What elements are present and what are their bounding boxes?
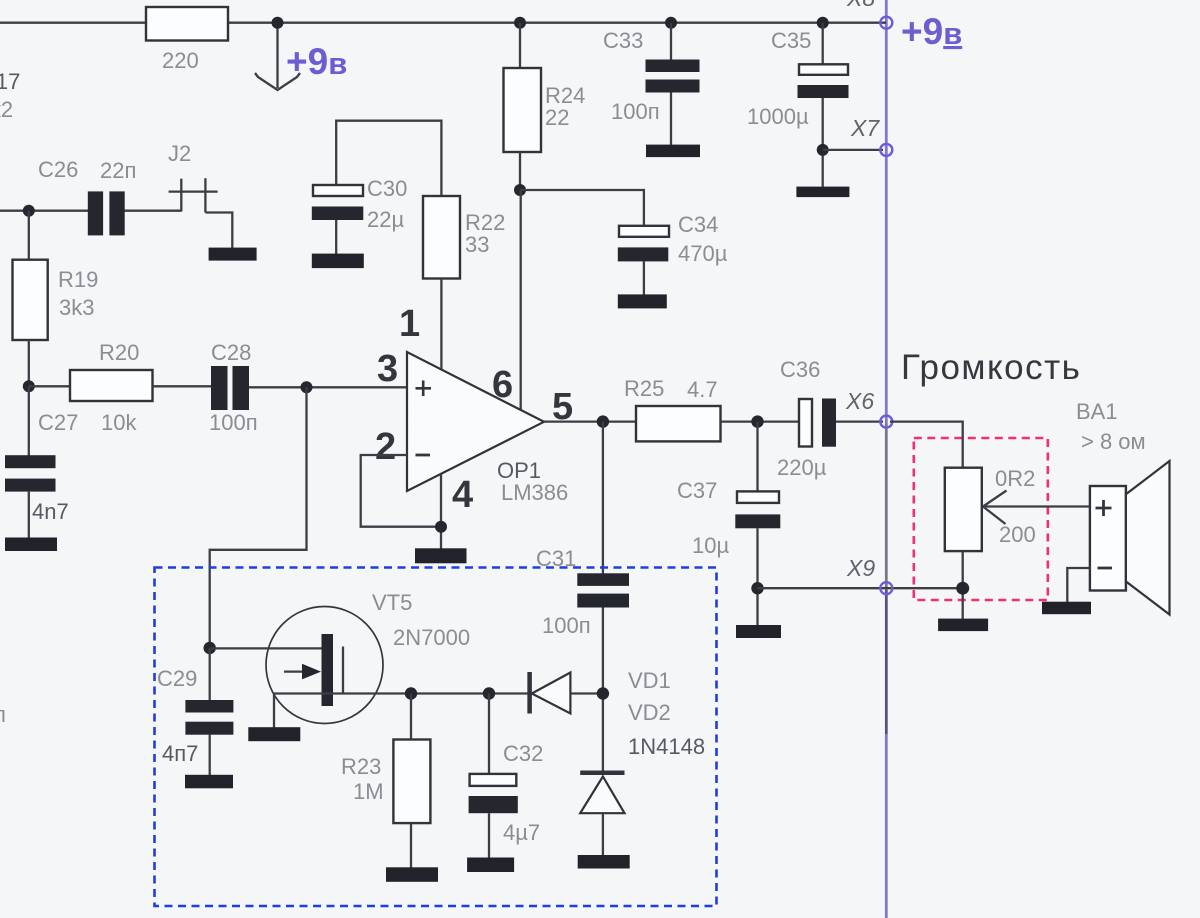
capacitor C31 (536, 422, 629, 771)
red dashed volume box (914, 438, 1048, 600)
capacitor C35 (747, 23, 849, 187)
ground under VT5 source (248, 727, 300, 741)
transistor VT5 labels (372, 590, 470, 650)
svg-text:1: 1 (399, 303, 420, 345)
ground under C35 (796, 187, 849, 198)
terminal X9 (846, 555, 892, 594)
svg-text:VD1: VD1 (628, 668, 671, 693)
svg-text:C31: C31 (536, 546, 576, 571)
node: pot bottom junction (956, 582, 969, 595)
wire pin2 to pin4 node (361, 455, 441, 527)
ground under C29 (185, 775, 233, 789)
svg-text:100п: 100п (611, 99, 660, 124)
svg-text:1N4148: 1N4148 (628, 734, 705, 759)
svg-text:470µ: 470µ (678, 241, 728, 266)
node: pin2/pin4 junction (435, 521, 447, 533)
svg-text:VT5: VT5 (372, 590, 412, 615)
wire potentiometer bottom (962, 551, 964, 619)
speaker labels BA1 >8 om (1076, 399, 1146, 454)
resistor R20 (29, 340, 211, 435)
svg-text:C30: C30 (367, 176, 407, 201)
capacitor C32 (469, 694, 544, 858)
wire pin3 branch down to gate network (210, 387, 307, 648)
svg-text:3k3: 3k3 (59, 295, 94, 320)
svg-text:X8: X8 (846, 0, 875, 11)
potentiometer labels 0R2 200 (995, 466, 1036, 547)
svg-text:22µ: 22µ (367, 207, 404, 232)
svg-text:2: 2 (375, 426, 396, 468)
blue dashed agc block box (155, 568, 717, 907)
resistor R25 (624, 376, 799, 441)
node: C35 top junction (817, 17, 829, 29)
svg-text:22: 22 (545, 105, 569, 130)
svg-text:X7: X7 (850, 115, 880, 141)
svg-text:VD2: VD2 (628, 700, 671, 725)
svg-text:п: п (0, 702, 6, 727)
potentiometer wiper arrow (983, 491, 1090, 525)
svg-text:LM386: LM386 (501, 480, 568, 505)
svg-text:R17: R17 (0, 69, 20, 94)
terminal X7 (850, 115, 892, 156)
wire C30 to R22 top link (336, 121, 441, 196)
transistor VT5 arrow (284, 664, 321, 680)
svg-text:C34: C34 (678, 212, 718, 237)
svg-text:10k: 10k (101, 410, 137, 435)
svg-text:1M: 1M (353, 779, 384, 804)
wire bottom row to X9 and potentiometer (758, 587, 963, 589)
capacitor C28 (209, 340, 407, 435)
speaker horn (1126, 461, 1170, 615)
ground under C33 (646, 145, 700, 158)
wire VT5 drain row to diode VD1 (274, 692, 603, 694)
wire pin6 (520, 190, 522, 411)
svg-text:22п: 22п (100, 158, 136, 183)
svg-text:4.7: 4.7 (687, 377, 718, 402)
svg-text:R23: R23 (341, 754, 381, 779)
capacitor C30 (312, 176, 408, 254)
ground under speaker (1042, 602, 1091, 615)
svg-text:C27: C27 (38, 410, 78, 435)
transistor VT5 body circle (266, 607, 383, 724)
resistor R24 (504, 23, 586, 190)
capacitor C26 (38, 157, 136, 235)
capacitor C29 (157, 648, 233, 775)
resistor 220 (146, 7, 228, 73)
wire speaker minus to ground (1067, 568, 1090, 602)
svg-text:C29: C29 (157, 666, 197, 691)
wire to C34 (520, 190, 644, 226)
node: output junction (597, 415, 609, 427)
resistor R19 (13, 211, 99, 386)
svg-text:220µ: 220µ (777, 455, 827, 480)
svg-text:200: 200 (999, 522, 1036, 547)
speaker plus mark (1096, 500, 1112, 516)
svg-text:C36: C36 (780, 357, 820, 382)
svg-text:X6: X6 (845, 388, 874, 414)
svg-text:C35: C35 (771, 28, 811, 53)
node: C35/X7 junction (817, 144, 829, 156)
svg-text:R25: R25 (624, 376, 664, 401)
ground under C27 (5, 538, 57, 552)
capacitor C34 (618, 212, 728, 295)
ground under R23 (386, 867, 438, 882)
svg-text:100п: 100п (542, 613, 591, 638)
wire left input row (0, 210, 181, 212)
resistor R23 (341, 694, 430, 868)
resistor R22 (423, 196, 505, 370)
ground under C34 (618, 294, 667, 308)
svg-text:Громкость: Громкость (901, 348, 1081, 387)
svg-text:3: 3 (377, 348, 398, 390)
node: C37/X9 junction (751, 582, 763, 594)
node: R24 top junction (514, 17, 526, 29)
jumper J2 (168, 141, 232, 248)
svg-text:4µ7: 4µ7 (503, 820, 540, 845)
svg-text:R20: R20 (99, 340, 139, 365)
svg-text:> 8 ом: > 8 ом (1081, 429, 1146, 454)
node: C33 top junction (665, 17, 677, 29)
svg-text:C26: C26 (38, 157, 78, 182)
ground under potentiometer (938, 619, 988, 632)
node: R19/R20/C27 junction (23, 380, 35, 392)
svg-text:10µ: 10µ (692, 533, 729, 558)
power bus line X8-X7-X6-X9 (blue vertical) (885, 0, 888, 918)
speaker BA1 box (1090, 486, 1126, 591)
ground under C37 (736, 625, 781, 638)
ground under J2 (209, 248, 257, 261)
transistor VT5 gate bar (322, 634, 334, 706)
+9v supply arrow (255, 23, 347, 90)
node: 220/arrow junction (272, 17, 284, 29)
op-amp designator OP1 LM386 (497, 458, 568, 505)
diode VD1 (530, 672, 571, 714)
ground under C32 (467, 858, 514, 873)
node: VD1/C31/VD2 junction (597, 687, 609, 699)
wire VT5 source to ground (273, 694, 275, 728)
wire X6 to potentiometer (890, 422, 963, 468)
op-amp minus input mark (416, 454, 431, 457)
speaker minus mark (1098, 567, 1113, 570)
node: R24/C34/pin6 junction (514, 184, 526, 196)
node: R23 top junction (405, 687, 417, 699)
svg-text:100п: 100п (209, 410, 258, 435)
ground under op-amp pin4 (415, 548, 467, 563)
svg-text:C32: C32 (503, 741, 543, 766)
node: C32 top junction (483, 687, 495, 699)
wire op-amp output row (544, 420, 636, 422)
svg-text:4п7: 4п7 (162, 741, 198, 766)
wire pin4 (440, 474, 442, 549)
op-amp U1 triangle (407, 352, 544, 491)
terminal X8 (846, 0, 962, 52)
svg-text:+9в: +9в (286, 41, 347, 82)
svg-text:33: 33 (465, 232, 489, 257)
capacitor C27 (5, 386, 78, 538)
svg-text:4: 4 (452, 474, 473, 516)
diode labels VD1 VD2 1N4148 (628, 668, 705, 759)
svg-text:+9в: +9в (901, 11, 962, 52)
op-amp plus input mark (416, 381, 432, 397)
potentiometer 0R2 body (945, 468, 982, 551)
svg-text:R19: R19 (58, 267, 98, 292)
svg-text:2N7000: 2N7000 (393, 625, 470, 650)
node: C26 left junction (23, 205, 35, 217)
node: R25/C36/C37 junction (751, 415, 763, 427)
svg-text:C37: C37 (677, 478, 717, 503)
capacitor C36 (777, 357, 883, 480)
svg-text:J2: J2 (168, 141, 191, 166)
transistor VT5 gate wire (210, 647, 322, 649)
svg-text:X9: X9 (846, 555, 875, 581)
capacitor C37 (677, 422, 780, 625)
ground under C30 (312, 254, 364, 269)
diode VD2 (580, 770, 624, 855)
svg-text:6: 6 (492, 364, 513, 406)
ground under VD2 (578, 855, 630, 869)
terminal X6 (845, 388, 892, 428)
node: pin3 branch junction (301, 381, 313, 393)
wire to X7 (823, 149, 883, 151)
capacitor C33 (603, 23, 700, 145)
node: VT5 gate / C29 junction (204, 642, 216, 654)
wire top supply rail (0, 22, 886, 24)
svg-text:1000µ: 1000µ (747, 104, 809, 129)
transistor VT5 channel line (342, 647, 344, 694)
svg-text:C33: C33 (603, 28, 643, 53)
svg-text:BA1: BA1 (1076, 399, 1118, 424)
svg-text:3к2: 3к2 (0, 97, 13, 122)
svg-text:4n7: 4n7 (32, 499, 69, 524)
svg-text:220: 220 (162, 48, 199, 73)
svg-text:0R2: 0R2 (995, 466, 1035, 491)
svg-text:C28: C28 (211, 340, 251, 365)
